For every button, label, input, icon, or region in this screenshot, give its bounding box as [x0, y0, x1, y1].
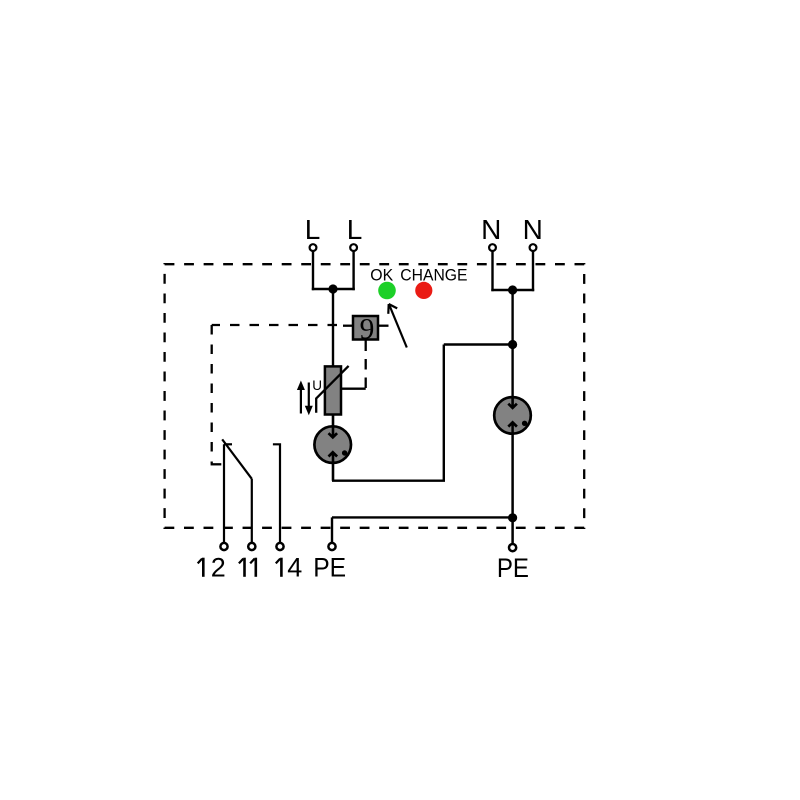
svg-text:CHANGE: CHANGE [400, 266, 467, 285]
svg-text:4: 4 [287, 553, 302, 583]
svg-text:2: 2 [211, 553, 226, 583]
svg-text:PE: PE [497, 553, 529, 583]
svg-text:9: 9 [360, 314, 375, 346]
svg-text:OK: OK [370, 266, 394, 285]
svg-text:L: L [347, 214, 363, 245]
svg-text:N: N [523, 214, 543, 245]
svg-text:U: U [312, 378, 322, 393]
svg-text:N: N [481, 214, 501, 245]
svg-text:PE: PE [313, 553, 346, 583]
svg-text:L: L [305, 214, 321, 245]
